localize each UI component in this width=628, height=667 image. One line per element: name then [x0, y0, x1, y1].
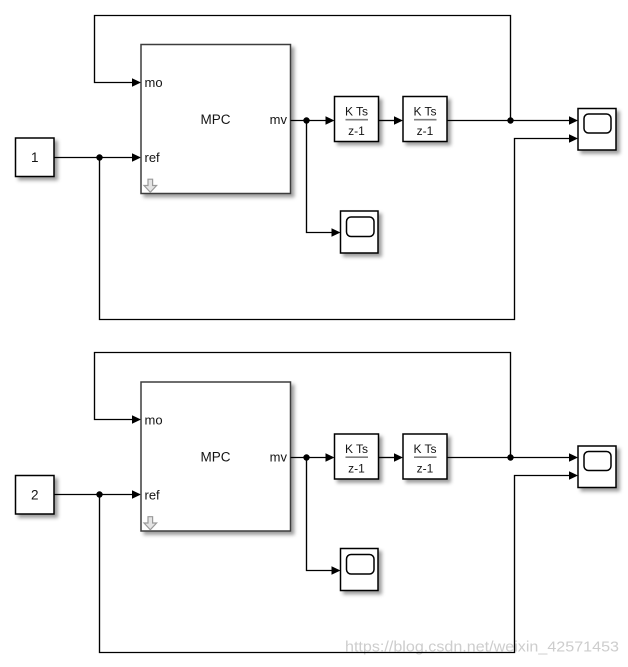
- discrete integrator block 1a: [335, 97, 379, 142]
- svg-text:K Ts: K Ts: [413, 442, 436, 456]
- junction C1 (feedback tap): [507, 117, 513, 123]
- junction B1 (mv branch): [303, 117, 309, 123]
- constant block 2: [16, 476, 55, 515]
- mask arrow icon (MPC2): [144, 517, 157, 530]
- svg-text:2: 2: [31, 488, 39, 503]
- wire mv1 to integrator 1a: [291, 116, 335, 124]
- wire integrator 1a to 1b: [379, 116, 404, 124]
- feedback wire top loop2 (mv to mo): [95, 353, 511, 458]
- scope block 2: [578, 446, 616, 488]
- mask arrow icon (MPC1): [144, 179, 157, 192]
- svg-text:mv: mv: [270, 112, 288, 127]
- svg-text:MPC: MPC: [201, 450, 231, 465]
- feedback wire bottom loop1 (ref to scope input 2): [100, 134, 579, 319]
- wire constant1 to ref: [54, 153, 141, 161]
- discrete integrator block 2b: [403, 434, 447, 479]
- svg-text:z-1: z-1: [417, 461, 434, 475]
- svg-text:mo: mo: [145, 75, 163, 90]
- svg-text:z-1: z-1: [417, 124, 434, 138]
- wire mv2 to integrator 2a: [291, 453, 335, 461]
- scope block 1: [578, 109, 616, 151]
- wire mv2 branch to small scope 2: [307, 458, 341, 575]
- svg-text:mo: mo: [145, 412, 163, 427]
- svg-text:K Ts: K Ts: [345, 442, 368, 456]
- svg-text:mv: mv: [270, 450, 288, 465]
- MPC controller block 1: [141, 45, 291, 194]
- svg-text:1: 1: [31, 150, 39, 165]
- feedback wire bottom loop2 (ref to scope input 2): [100, 471, 579, 652]
- wire integrator 2a to 2b: [379, 453, 404, 461]
- wire integrator 2b to scope 2: [447, 453, 578, 461]
- feedback wire top loop1 (mv to mo): [95, 16, 511, 121]
- small scope block 2: [341, 549, 379, 591]
- svg-text:ref: ref: [145, 150, 161, 165]
- svg-text:ref: ref: [145, 487, 161, 502]
- wire mv1 branch to small scope 1: [307, 121, 341, 237]
- constant block 1: [16, 138, 55, 177]
- discrete integrator block 1b: [403, 97, 447, 142]
- svg-text:MPC: MPC: [201, 112, 231, 127]
- MPC controller block 2: [141, 382, 291, 531]
- svg-text:K Ts: K Ts: [413, 105, 436, 119]
- junction C2 (feedback tap): [507, 454, 513, 460]
- small scope block 1: [341, 211, 379, 253]
- discrete integrator block 2a: [335, 434, 379, 479]
- wire constant2 to ref: [54, 490, 141, 498]
- svg-text:z-1: z-1: [348, 461, 365, 475]
- svg-text:K Ts: K Ts: [345, 105, 368, 119]
- wire integrator 1b to scope 1: [447, 116, 578, 124]
- junction B2 (mv branch): [303, 454, 309, 460]
- svg-text:z-1: z-1: [348, 124, 365, 138]
- junction A1 (ref branch): [96, 154, 102, 160]
- junction A2 (ref branch): [96, 491, 102, 497]
